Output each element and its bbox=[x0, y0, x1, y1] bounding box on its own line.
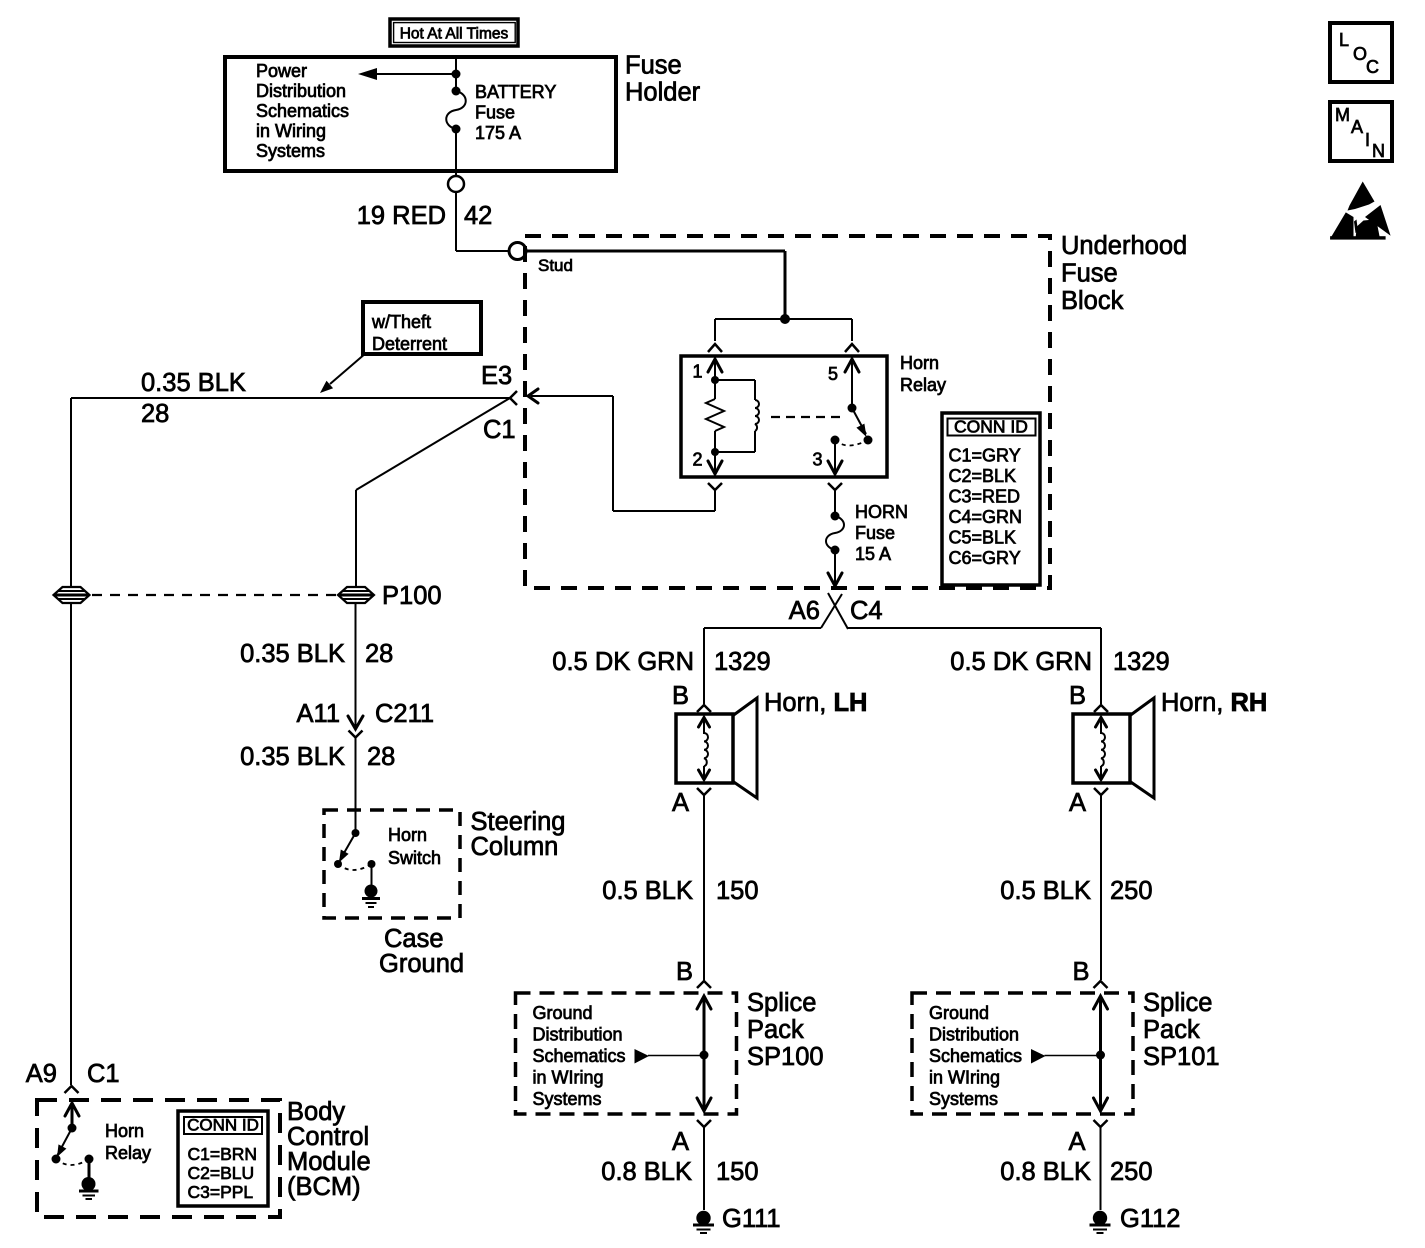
svg-text:3: 3 bbox=[813, 450, 823, 470]
svg-text:w/Theft: w/Theft bbox=[371, 312, 431, 332]
svg-text:Block: Block bbox=[1061, 287, 1124, 315]
svg-text:250: 250 bbox=[1110, 877, 1153, 905]
svg-text:28: 28 bbox=[367, 743, 395, 771]
svg-text:1329: 1329 bbox=[714, 648, 771, 676]
svg-text:Fuse: Fuse bbox=[625, 52, 682, 80]
svg-text:0.8 BLK: 0.8 BLK bbox=[1000, 1158, 1091, 1186]
svg-text:(BCM): (BCM) bbox=[287, 1173, 361, 1201]
svg-text:in Wiring: in Wiring bbox=[256, 121, 326, 141]
svg-text:SP101: SP101 bbox=[1143, 1043, 1220, 1071]
svg-text:0.35 BLK: 0.35 BLK bbox=[240, 743, 345, 771]
svg-text:250: 250 bbox=[1110, 1158, 1153, 1186]
svg-text:Pack: Pack bbox=[747, 1016, 804, 1044]
svg-text:SP100: SP100 bbox=[747, 1043, 824, 1071]
svg-text:Fuse: Fuse bbox=[1061, 260, 1118, 288]
svg-text:Systems: Systems bbox=[256, 141, 325, 161]
svg-text:M: M bbox=[1335, 105, 1350, 125]
svg-text:0.8 BLK: 0.8 BLK bbox=[601, 1158, 692, 1186]
svg-text:Underhood: Underhood bbox=[1061, 232, 1187, 260]
svg-text:1329: 1329 bbox=[1113, 648, 1170, 676]
svg-text:Fuse: Fuse bbox=[855, 523, 895, 543]
svg-text:Control: Control bbox=[287, 1123, 369, 1151]
svg-text:L: L bbox=[1339, 30, 1349, 50]
svg-text:0.35 BLK: 0.35 BLK bbox=[240, 640, 345, 668]
svg-text:CONN ID: CONN ID bbox=[187, 1116, 259, 1135]
svg-text:Stud: Stud bbox=[538, 256, 573, 275]
svg-text:Pack: Pack bbox=[1143, 1016, 1200, 1044]
svg-text:N: N bbox=[1372, 141, 1385, 161]
svg-text:C3=PPL: C3=PPL bbox=[188, 1182, 254, 1202]
svg-text:Body: Body bbox=[287, 1098, 345, 1126]
svg-text:Splice: Splice bbox=[1143, 989, 1212, 1017]
svg-text:Horn: Horn bbox=[388, 825, 427, 845]
svg-text:A9: A9 bbox=[26, 1060, 57, 1088]
svg-text:C4=GRN: C4=GRN bbox=[949, 507, 1023, 527]
svg-text:28: 28 bbox=[141, 400, 169, 428]
svg-text:C5=BLK: C5=BLK bbox=[949, 528, 1017, 548]
svg-text:1: 1 bbox=[693, 362, 703, 382]
svg-text:Relay: Relay bbox=[105, 1143, 151, 1163]
svg-text:HORN: HORN bbox=[855, 502, 908, 522]
svg-text:Horn, LH: Horn, LH bbox=[764, 689, 867, 717]
svg-text:E3: E3 bbox=[481, 362, 512, 390]
svg-text:B: B bbox=[676, 958, 693, 986]
svg-text:C1: C1 bbox=[483, 416, 516, 444]
svg-text:5: 5 bbox=[828, 364, 838, 384]
svg-text:A11: A11 bbox=[297, 700, 340, 728]
svg-text:B: B bbox=[1069, 682, 1086, 710]
svg-text:Horn, RH: Horn, RH bbox=[1161, 689, 1267, 717]
svg-text:Splice: Splice bbox=[747, 989, 816, 1017]
svg-text:C2=BLU: C2=BLU bbox=[188, 1163, 255, 1183]
svg-text:Switch: Switch bbox=[388, 848, 441, 868]
svg-text:2: 2 bbox=[693, 450, 703, 470]
svg-text:Ground: Ground bbox=[533, 1003, 593, 1023]
svg-text:Steering: Steering bbox=[471, 808, 566, 836]
svg-text:C1=BRN: C1=BRN bbox=[188, 1144, 258, 1164]
svg-text:C3=RED: C3=RED bbox=[949, 487, 1021, 507]
svg-text:C6=GRY: C6=GRY bbox=[949, 548, 1021, 568]
svg-text:C4: C4 bbox=[850, 597, 883, 625]
svg-text:C: C bbox=[1366, 57, 1379, 77]
svg-text:Power: Power bbox=[256, 61, 307, 81]
svg-text:C2=BLK: C2=BLK bbox=[949, 466, 1017, 486]
svg-text:A6: A6 bbox=[789, 597, 820, 625]
svg-text:0.5 DK GRN: 0.5 DK GRN bbox=[950, 648, 1092, 676]
svg-text:BATTERY: BATTERY bbox=[475, 82, 556, 102]
svg-text:Hot At All Times: Hot At All Times bbox=[400, 26, 509, 43]
svg-text:Horn: Horn bbox=[900, 353, 939, 373]
svg-text:in WIring: in WIring bbox=[533, 1068, 604, 1088]
svg-text:Module: Module bbox=[287, 1148, 371, 1176]
svg-text:Horn: Horn bbox=[105, 1121, 144, 1141]
svg-text:150: 150 bbox=[716, 1158, 759, 1186]
svg-text:Case: Case bbox=[384, 925, 444, 953]
svg-text:A: A bbox=[672, 789, 689, 817]
svg-text:A: A bbox=[1351, 117, 1363, 137]
svg-text:P100: P100 bbox=[382, 582, 442, 610]
svg-text:O: O bbox=[1353, 44, 1367, 64]
svg-text:0.5 BLK: 0.5 BLK bbox=[1000, 877, 1091, 905]
svg-text:I: I bbox=[1365, 130, 1370, 150]
svg-text:28: 28 bbox=[365, 640, 393, 668]
svg-text:Ground: Ground bbox=[379, 950, 464, 978]
svg-text:0.35 BLK: 0.35 BLK bbox=[141, 369, 246, 397]
svg-text:Fuse: Fuse bbox=[475, 103, 515, 123]
svg-text:B: B bbox=[672, 682, 689, 710]
svg-text:G111: G111 bbox=[722, 1205, 781, 1233]
svg-text:0.5 DK GRN: 0.5 DK GRN bbox=[552, 648, 694, 676]
svg-text:15 A: 15 A bbox=[855, 544, 891, 564]
svg-text:Column: Column bbox=[471, 833, 559, 861]
svg-text:G112: G112 bbox=[1120, 1205, 1181, 1233]
svg-text:Deterrent: Deterrent bbox=[372, 334, 447, 354]
svg-text:Holder: Holder bbox=[625, 79, 701, 107]
svg-text:175 A: 175 A bbox=[475, 123, 521, 143]
svg-text:Schematics: Schematics bbox=[533, 1046, 626, 1066]
svg-text:19 RED: 19 RED bbox=[357, 202, 446, 230]
svg-text:Relay: Relay bbox=[900, 375, 946, 395]
svg-text:CONN ID: CONN ID bbox=[954, 417, 1028, 437]
svg-text:A: A bbox=[672, 1128, 689, 1156]
svg-text:C1=GRY: C1=GRY bbox=[949, 446, 1021, 466]
svg-text:Schematics: Schematics bbox=[256, 101, 349, 121]
svg-text:Distribution: Distribution bbox=[533, 1025, 623, 1045]
svg-text:Systems: Systems bbox=[533, 1089, 602, 1109]
svg-text:Distribution: Distribution bbox=[256, 81, 346, 101]
svg-text:C1: C1 bbox=[87, 1060, 120, 1088]
svg-text:150: 150 bbox=[716, 877, 759, 905]
svg-text:42: 42 bbox=[464, 202, 492, 230]
svg-text:0.5 BLK: 0.5 BLK bbox=[602, 877, 693, 905]
svg-text:C211: C211 bbox=[375, 700, 434, 728]
svg-text:A: A bbox=[1069, 789, 1086, 817]
